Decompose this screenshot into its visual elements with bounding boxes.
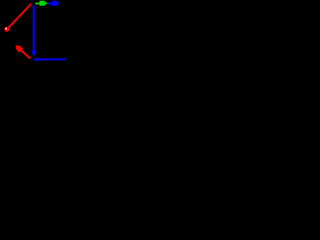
green arrow (velocity) bbox=[35, 1, 47, 6]
red arrow 2 (acceleration) bbox=[16, 45, 31, 58]
blue vertical arrow (down) bbox=[31, 5, 37, 56]
ball bbox=[4, 27, 9, 32]
blue top arrow bbox=[48, 1, 60, 6]
red line (position vector) bbox=[7, 4, 31, 29]
blue horizontal arrow (left) bbox=[32, 57, 66, 61]
background bbox=[0, 0, 66, 66]
